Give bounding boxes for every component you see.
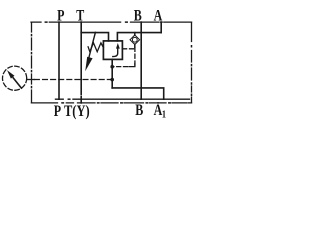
check valve C1 stub from A line <box>134 33 136 36</box>
pilot line from valve right side (dashed) <box>122 48 134 50</box>
pilot line down from check valve (dashed) <box>134 47 136 66</box>
drain line from valve bottom <box>111 59 113 88</box>
boundary top dash-dot <box>31 21 192 23</box>
wire: A port line <box>160 22 162 32</box>
svg-text:P: P <box>57 7 65 25</box>
pilot line corner to drain junction (dashed) <box>129 64 135 67</box>
gauge line (dashed) from gauge to drain junction <box>27 79 35 81</box>
relief valve V1 body <box>103 41 122 60</box>
adjustment arrow head <box>85 57 92 72</box>
bottom interface line (dash, dot, long solid) <box>56 98 190 100</box>
boundary right dash-dot <box>191 22 193 103</box>
boundary left dash-dot <box>31 22 33 103</box>
junction dot on drain at pilot line <box>110 65 114 69</box>
wire: T port line <box>80 22 82 103</box>
svg-text:A: A <box>154 7 163 25</box>
adjustment arrow shaft <box>89 32 96 58</box>
boundary bottom dash-dot <box>32 102 192 104</box>
svg-text:B: B <box>134 7 142 25</box>
spring of relief valve <box>88 43 103 52</box>
wire: A branch to valve top-right <box>117 33 161 41</box>
check valve C1 diamond seat <box>130 35 140 45</box>
wire: B port line <box>140 22 142 99</box>
check valve C1 bottom stub <box>134 44 136 47</box>
relief valve internal arrow head <box>116 43 120 49</box>
svg-text:T(Y): T(Y) <box>64 103 90 121</box>
svg-text:P: P <box>54 103 62 121</box>
junction dot on drain at gauge line <box>110 78 114 82</box>
wire: T branch to valve top-left <box>81 33 108 41</box>
wire: P port line <box>58 22 60 99</box>
check valve C1 ball <box>132 37 137 42</box>
relief valve internal flow arrow <box>113 48 118 57</box>
gauge arrow head <box>7 70 15 79</box>
pressure gauge G1 dashed circle <box>3 66 27 90</box>
svg-text:B: B <box>135 101 143 119</box>
svg-text:1: 1 <box>162 109 166 121</box>
gauge arrow shaft <box>13 77 22 89</box>
drain line horizontal to A1 stub <box>112 88 164 99</box>
svg-text:T: T <box>76 7 84 25</box>
